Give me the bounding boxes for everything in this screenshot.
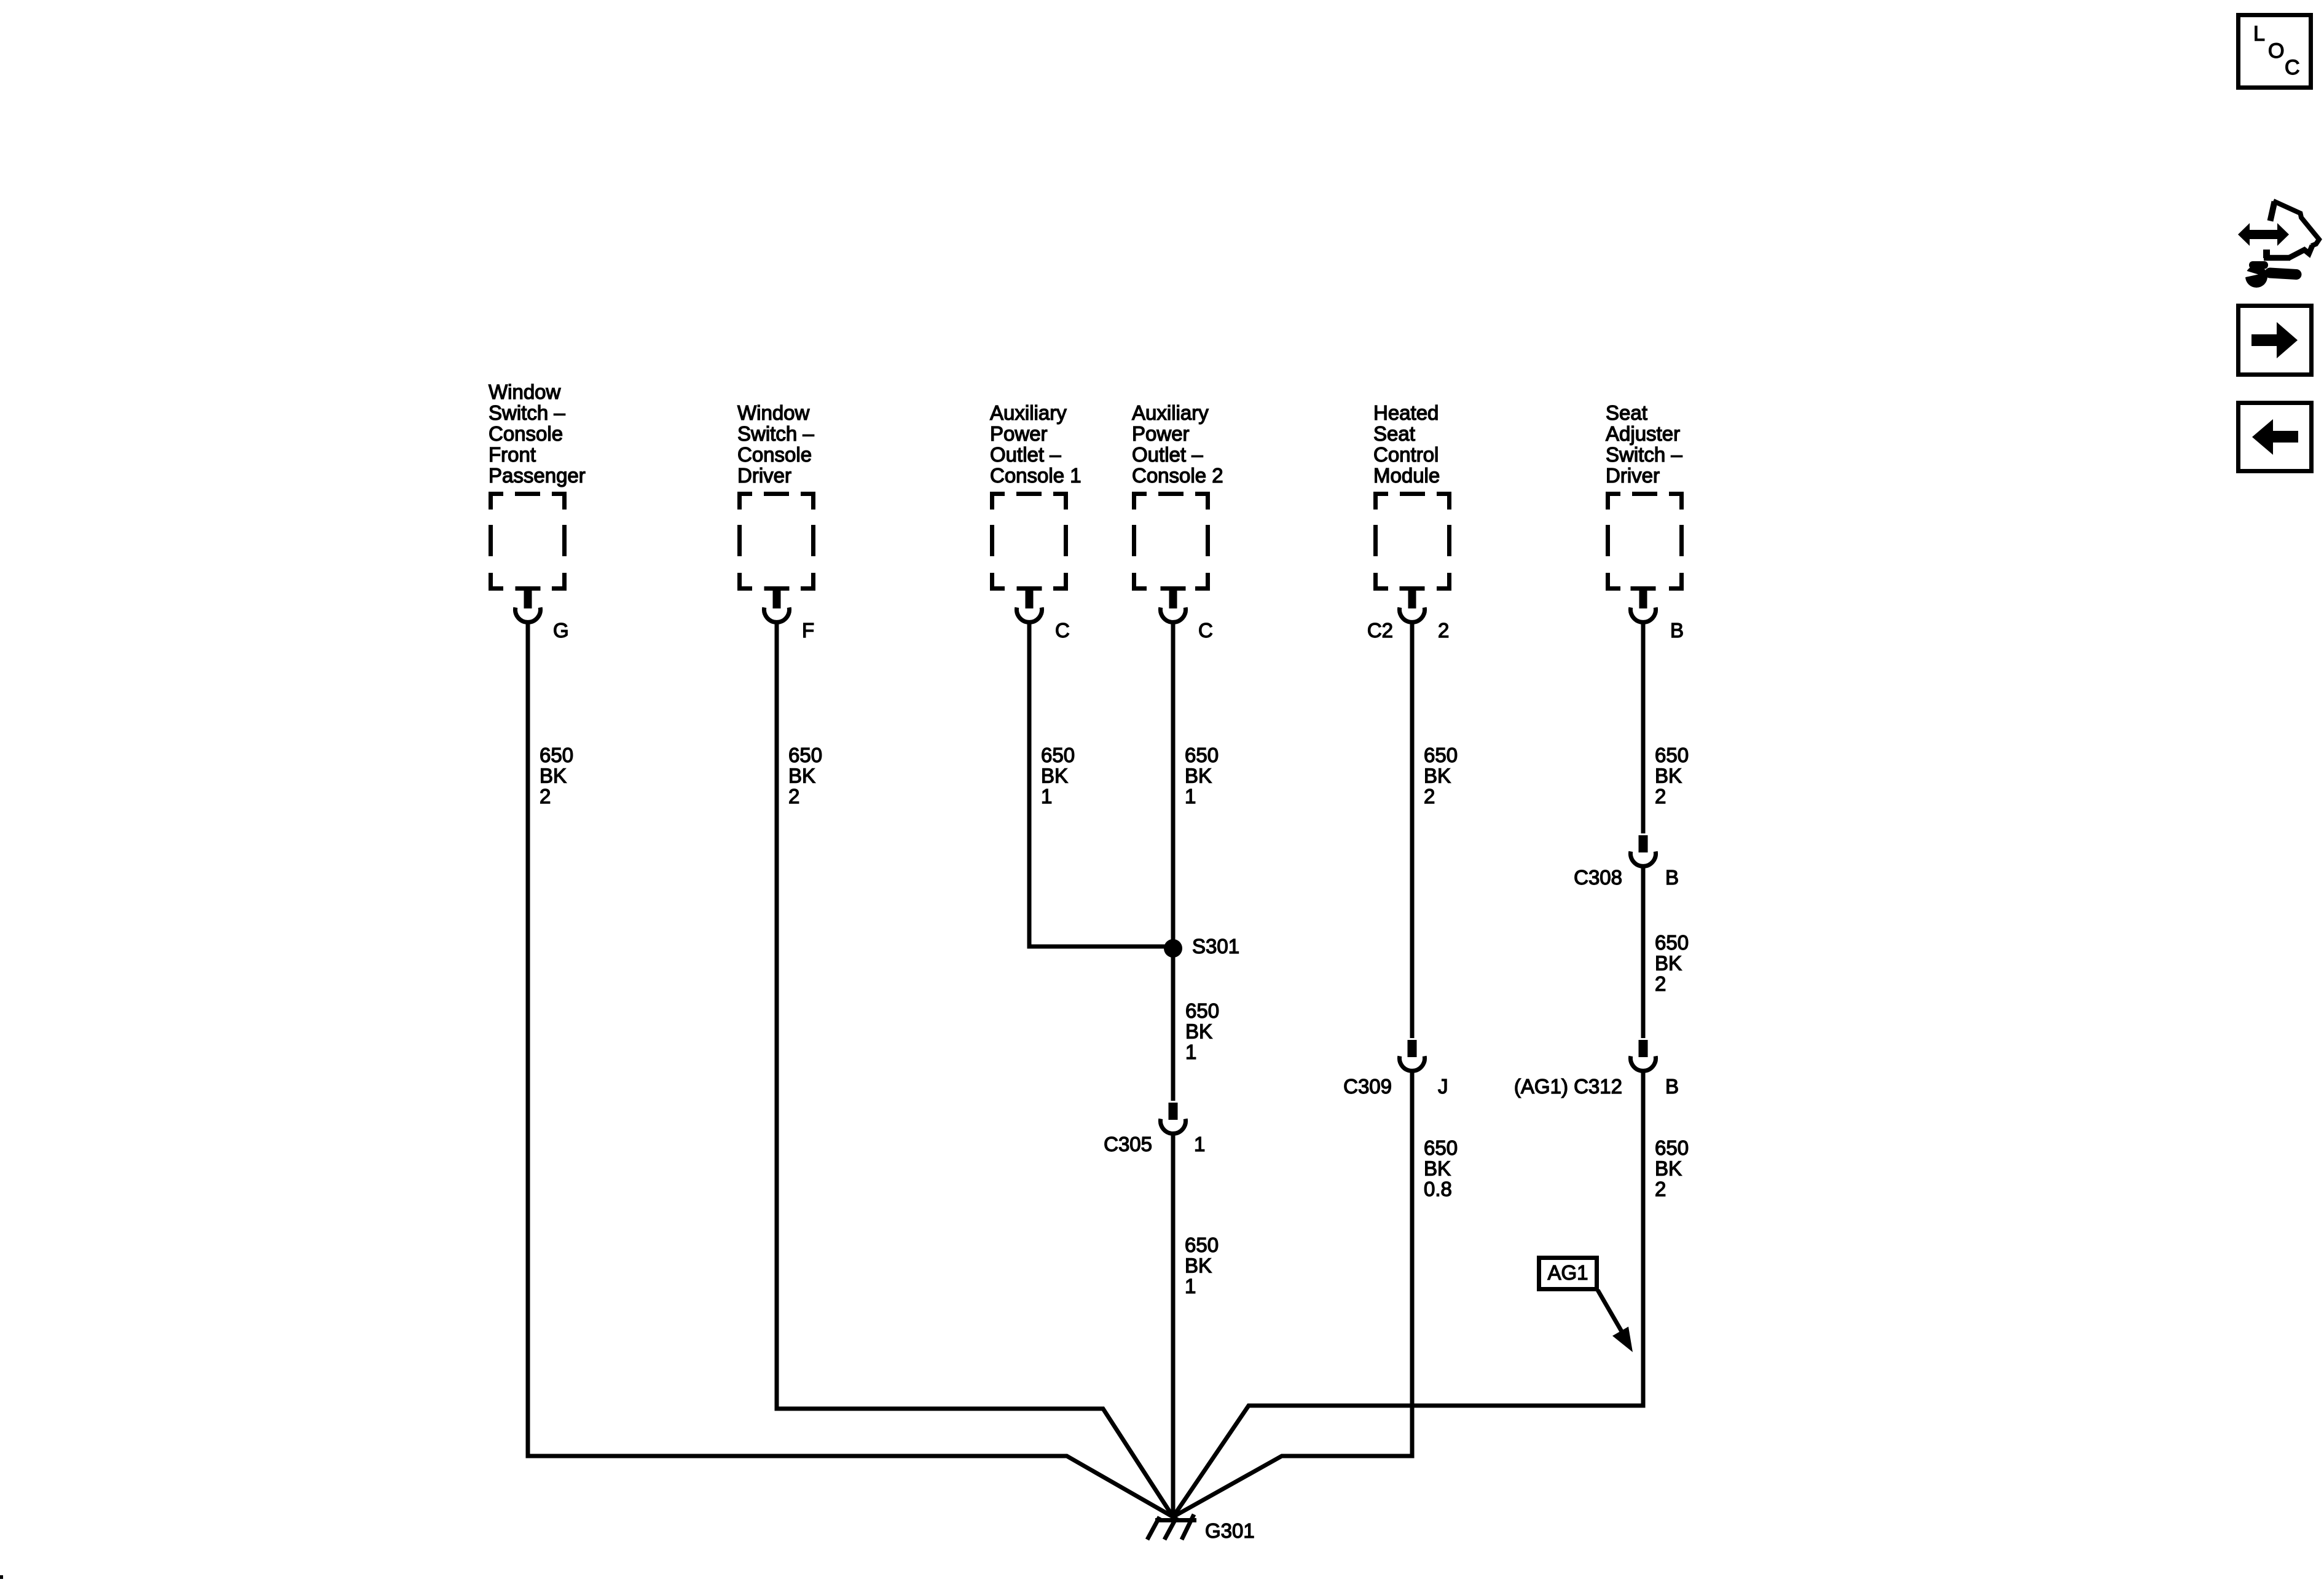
svg-text:Console: Console — [737, 443, 812, 466]
connector pin G (Window Switch Front Passenger) — [515, 586, 568, 642]
svg-text:C: C — [2285, 56, 2300, 79]
svg-text:2: 2 — [540, 785, 551, 808]
label 650 BK 2 (col6 lower) — [1655, 1136, 1689, 1200]
svg-text:B: B — [1665, 1075, 1679, 1098]
svg-text:Adjuster: Adjuster — [1606, 422, 1680, 445]
svg-text:B: B — [1665, 866, 1679, 889]
svg-text:0.8: 0.8 — [1424, 1178, 1452, 1200]
svg-text:650: 650 — [788, 744, 822, 766]
label 650 BK 1 (col4) — [1185, 744, 1219, 808]
svg-text:S301: S301 — [1192, 935, 1239, 958]
svg-text:C: C — [1198, 619, 1213, 642]
wire 650 BK 2 from Window Switch Front Passenger to G301 — [528, 623, 1173, 1517]
wire 650 BK 2 between C308 and C312 — [1641, 867, 1646, 1038]
component: Window Switch - Console Driver — [737, 401, 815, 591]
svg-text:Power: Power — [990, 422, 1048, 445]
label 650 BK 2 (col1) — [540, 744, 573, 808]
icon: two-way arrow with component outline and wrench — [2238, 201, 2319, 288]
svg-text:1: 1 — [1185, 1275, 1196, 1297]
svg-text:C2: C2 — [1367, 619, 1393, 642]
svg-text:Seat: Seat — [1606, 401, 1647, 424]
svg-text:BK: BK — [1041, 765, 1068, 787]
connector pin C (Aux Power Outlet Console 2) — [1161, 586, 1213, 642]
svg-text:Driver: Driver — [737, 464, 791, 487]
label 650 BK 2 (col6 mid) — [1655, 931, 1689, 995]
label 650 BK 1 (below C305) — [1185, 1234, 1219, 1297]
svg-text:Console 2: Console 2 — [1132, 464, 1223, 487]
svg-text:AG1: AG1 — [1547, 1261, 1588, 1284]
svg-text:1: 1 — [1185, 1041, 1196, 1063]
svg-text:BK: BK — [1424, 1157, 1451, 1180]
svg-text:BK: BK — [1185, 765, 1212, 787]
connector pin C2 / 2 (Heated Seat Control Module) — [1367, 586, 1450, 642]
connector pin C (Aux Power Outlet Console 1) — [1017, 586, 1070, 642]
svg-text:Switch –: Switch – — [1606, 443, 1682, 466]
svg-text:C: C — [1055, 619, 1070, 642]
connector C309 pin J — [1343, 1040, 1448, 1098]
ground G301 — [1147, 1514, 1255, 1542]
svg-text:Outlet –: Outlet – — [1132, 443, 1203, 466]
svg-text:650: 650 — [1424, 744, 1458, 766]
svg-text:BK: BK — [1185, 1254, 1212, 1277]
svg-text:Heated: Heated — [1373, 401, 1439, 424]
svg-text:2: 2 — [1655, 972, 1666, 995]
svg-text:O: O — [2268, 39, 2284, 63]
svg-text:Window: Window — [737, 401, 810, 424]
svg-text:2: 2 — [1424, 785, 1435, 808]
svg-text:650: 650 — [1655, 1136, 1689, 1159]
svg-text:C308: C308 — [1574, 866, 1622, 889]
svg-text:BK: BK — [1655, 1157, 1682, 1180]
wire 650 BK 1 from S301 to C305 label — [1185, 999, 1219, 1063]
svg-text:Auxiliary: Auxiliary — [990, 401, 1067, 424]
svg-text:Control: Control — [1373, 443, 1439, 466]
svg-text:C305: C305 — [1104, 1133, 1152, 1155]
component: Auxiliary Power Outlet - Console 1 — [990, 401, 1082, 591]
wire 650 BK 1 from Aux Power Outlet Console 1 to splice S301 — [1029, 623, 1173, 946]
svg-text:Console 1: Console 1 — [990, 464, 1082, 487]
svg-text:2: 2 — [1655, 785, 1666, 808]
component: Window Switch - Console Front Passenger — [489, 380, 586, 591]
svg-text:Auxiliary: Auxiliary — [1132, 401, 1209, 424]
svg-text:L: L — [2253, 22, 2265, 45]
wire 650 BK 2 from Window Switch Driver to G301 — [777, 623, 1173, 1517]
svg-text:650: 650 — [1185, 1234, 1219, 1256]
svg-text:BK: BK — [540, 765, 567, 787]
svg-text:BK: BK — [1185, 1020, 1212, 1043]
label 650 BK 1 (col3) — [1041, 744, 1075, 808]
svg-text:650: 650 — [1655, 931, 1689, 954]
svg-text:650: 650 — [1185, 744, 1219, 766]
LOC legend box — [2239, 15, 2311, 88]
connector C305 pin 1 — [1104, 1103, 1205, 1155]
component: Seat Adjuster Switch - Driver — [1606, 401, 1684, 591]
svg-text:650: 650 — [1185, 999, 1219, 1022]
wire 650 BK 2 from Seat Adjuster Switch to C308 — [1641, 623, 1646, 833]
label 650 BK 2 (col5) — [1424, 744, 1458, 808]
wire 650 BK 1 from C305 to G301 — [1171, 1135, 1176, 1519]
svg-text:BK: BK — [1655, 765, 1682, 787]
svg-text:B: B — [1670, 619, 1684, 642]
svg-text:1: 1 — [1185, 785, 1196, 808]
wire 650 BK 0.8 from C309 to G301 — [1173, 1072, 1412, 1517]
svg-text:BK: BK — [1424, 765, 1451, 787]
svg-text:Switch –: Switch – — [489, 401, 565, 424]
svg-text:1: 1 — [1041, 785, 1052, 808]
component: Auxiliary Power Outlet - Console 2 — [1132, 401, 1223, 591]
wire 650 BK 1 from Aux Power Outlet Console 2 to C305 — [1171, 623, 1176, 1101]
svg-text:2: 2 — [788, 785, 799, 808]
svg-text:BK: BK — [1655, 952, 1682, 975]
connector C308 pin B — [1574, 835, 1679, 889]
wire 650 BK 2 from Heated Seat Control Module to C309 — [1410, 623, 1415, 1038]
svg-text:650: 650 — [1041, 744, 1075, 766]
svg-text:G: G — [553, 619, 569, 642]
svg-text:650: 650 — [540, 744, 573, 766]
reference tag AG1 with arrow — [1539, 1258, 1633, 1353]
svg-text:Window: Window — [489, 380, 561, 403]
label 650 BK 0.8 — [1424, 1136, 1458, 1200]
icon: back arrow box — [2239, 403, 2312, 471]
svg-text:C309: C309 — [1343, 1075, 1392, 1098]
connector pin B (Seat Adjuster Switch Driver) — [1631, 586, 1684, 642]
svg-text:Seat: Seat — [1373, 422, 1415, 445]
svg-text:BK: BK — [788, 765, 815, 787]
svg-text:1: 1 — [1194, 1133, 1205, 1155]
svg-text:Front: Front — [489, 443, 536, 466]
wire 650 BK 2 from C312 to G301 — [1173, 1072, 1643, 1517]
svg-text:2: 2 — [1655, 1178, 1666, 1200]
svg-text:F: F — [802, 619, 814, 642]
svg-text:Outlet –: Outlet – — [990, 443, 1061, 466]
connector C312 pin B (AG1) — [1514, 1040, 1679, 1098]
svg-text:(AG1) C312: (AG1) C312 — [1514, 1075, 1622, 1098]
svg-text:2: 2 — [1438, 619, 1449, 642]
svg-text:Driver: Driver — [1606, 464, 1660, 487]
label 650 BK 2 (col2) — [788, 744, 822, 808]
component: Heated Seat Control Module — [1373, 401, 1451, 591]
page corner mark — [0, 1575, 3, 1579]
connector pin F (Window Switch Driver) — [764, 586, 815, 642]
svg-text:G301: G301 — [1205, 1519, 1255, 1542]
svg-text:J: J — [1438, 1075, 1448, 1098]
svg-text:Console: Console — [489, 422, 563, 445]
svg-text:650: 650 — [1655, 744, 1689, 766]
icon: forward arrow box — [2239, 306, 2312, 375]
svg-text:Switch –: Switch – — [737, 422, 814, 445]
svg-text:Power: Power — [1132, 422, 1190, 445]
svg-text:650: 650 — [1424, 1136, 1458, 1159]
splice S301 — [1164, 935, 1239, 958]
svg-text:Module: Module — [1373, 464, 1440, 487]
label 650 BK 2 (col6 upper) — [1655, 744, 1689, 808]
svg-text:Passenger: Passenger — [489, 464, 586, 487]
